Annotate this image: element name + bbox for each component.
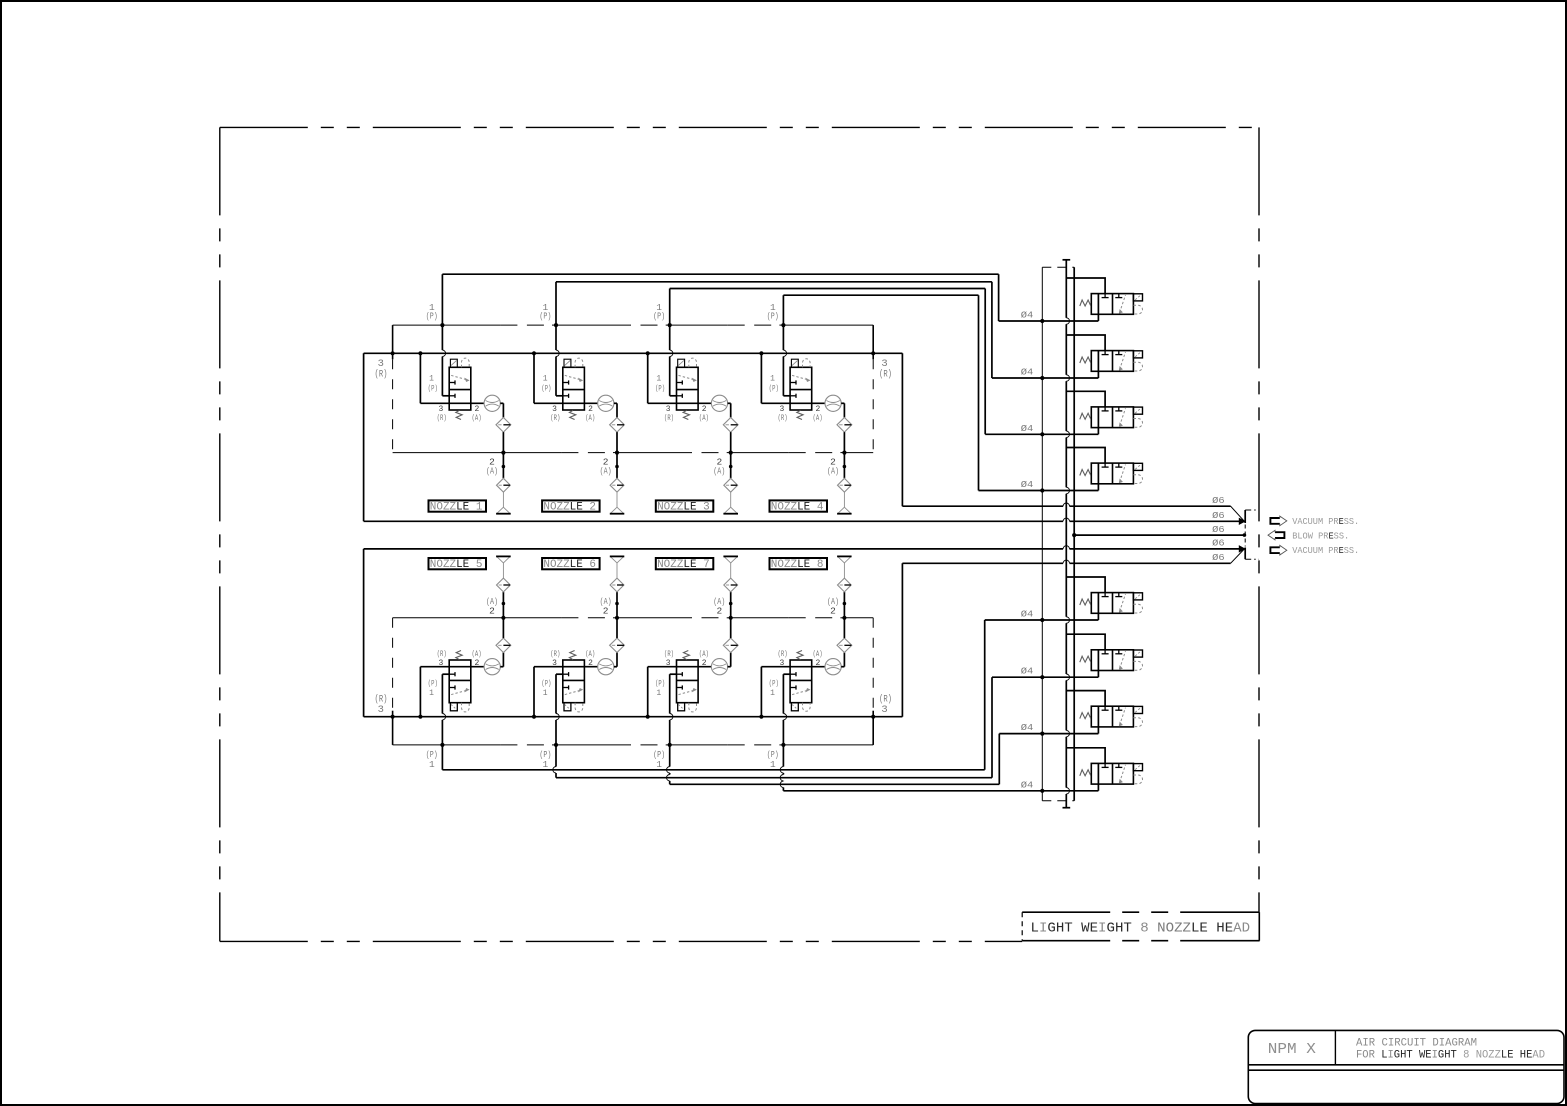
- nozzle unit 5: 3/2 pilot valve body: [449, 660, 471, 703]
- nozzle unit 2: valve port tick marks: [563, 382, 569, 384]
- nozzle unit 7: flow indicator ball: [711, 659, 727, 675]
- svg-text:3: 3: [438, 405, 443, 414]
- solenoid valve SV4: return spring: [1080, 470, 1091, 476]
- svg-text:(P): (P): [426, 311, 438, 322]
- nozzle unit 4: pilot supply riser wire 1(P): [782, 295, 784, 350]
- svg-text:1: 1: [656, 375, 661, 384]
- svg-text:(R): (R): [664, 650, 674, 659]
- solenoid valve SV4: flow diagonal: [1120, 465, 1126, 483]
- nozzle unit 5: wire meter to check valve: [500, 666, 503, 668]
- wire: pilot line nozzle 4 to solenoid valve SV4: [783, 294, 978, 296]
- svg-text:3: 3: [378, 704, 384, 716]
- nozzle unit 6: 3/2 pilot valve body: [563, 660, 585, 703]
- nozzle unit 4: wire R/A line through valve to flow meter: [761, 402, 825, 404]
- nozzle unit 8: spring return dome: [803, 703, 811, 712]
- svg-text:1: 1: [770, 375, 775, 384]
- svg-text:(A): (A): [813, 650, 823, 659]
- solenoid valve SV3: solenoid coil box: [1133, 407, 1142, 414]
- solenoid valve SV2: supply tap wire: [1066, 335, 1105, 351]
- nozzle unit 4: spring return dome: [803, 359, 811, 368]
- nozzle unit 4: return spring zigzag: [797, 410, 803, 419]
- nozzle unit 1: valve port tick marks: [449, 382, 455, 384]
- nozzle unit 5: wire diamond to A rail: [502, 618, 504, 638]
- nozzle unit 5: check valve / fitting diamond lower: [496, 638, 511, 652]
- svg-text:Ø4: Ø4: [1021, 368, 1034, 378]
- nozzle unit 3: wire R/A line through valve to flow meter: [648, 402, 712, 404]
- svg-text:(P): (P): [539, 311, 551, 322]
- nozzle unit 6: pilot actuator box: [564, 703, 571, 711]
- title block horizontal lines: [1248, 1064, 1564, 1066]
- solenoid valve SV5: port ticks: [1104, 593, 1106, 597]
- wire: pilot line nozzle 3 to solenoid valve SV3: [670, 288, 986, 290]
- nozzle unit 5: pilot actuator box: [450, 703, 457, 711]
- svg-text:(R): (R): [778, 414, 788, 423]
- svg-text:(R): (R): [437, 650, 447, 659]
- wire Ø6 line 1: top group R exhaust to vacuum port: [901, 505, 903, 507]
- manifold blow rail 2: [1073, 267, 1075, 800]
- nozzle unit 6: valve port tick marks: [563, 687, 569, 689]
- svg-text:NOZZLE 1: NOZZLE 1: [430, 502, 483, 514]
- solenoid valve SV3: outlet port wire: [1097, 407, 1099, 434]
- nozzle unit 3: wire A rail to lower fitting: [730, 453, 732, 479]
- svg-text:Ø6: Ø6: [1212, 496, 1225, 506]
- solenoid valve SV6: supply tap wire: [1066, 634, 1105, 650]
- svg-text:2: 2: [830, 606, 836, 617]
- nozzle unit 7: valve port tick marks: [677, 687, 683, 689]
- nozzle unit 4: flow indicator ball: [825, 395, 841, 411]
- solenoid valve SV3: supply tap wire: [1066, 391, 1105, 407]
- svg-text:2: 2: [489, 606, 495, 617]
- nozzle unit 4: pilot actuator box: [791, 359, 798, 367]
- solenoid valve SV5: solenoid coil box: [1133, 593, 1142, 600]
- nozzle unit 3: nozzle tip symbol: [730, 492, 732, 507]
- nozzle unit 3: wire diamond to A rail: [730, 432, 732, 453]
- nozzle unit 3: valve flow arrow (top cell): [679, 375, 696, 380]
- nozzle unit 3: spring return dome: [689, 358, 697, 367]
- nozzle unit 6: wire meter to check valve: [614, 666, 617, 668]
- solenoid valve SV4: supply tap wire: [1066, 448, 1105, 464]
- nozzle unit 6: exhaust drop wire from R rail: [532, 715, 536, 719]
- svg-text:3: 3: [552, 405, 557, 414]
- solenoid valve SV3: connector dome: [1133, 419, 1142, 428]
- wire Ø6 line 4: bottom group A header to vacuum port: [364, 548, 1064, 550]
- svg-text:2: 2: [588, 659, 593, 668]
- nozzle unit 3: outlet fitting diamond lower: [724, 478, 738, 492]
- solenoid valve SV7: flow diagonal: [1120, 708, 1126, 726]
- svg-text:(R): (R): [664, 414, 674, 423]
- solenoid valve SV3: return spring: [1080, 413, 1091, 419]
- nozzle unit 7: exhaust drop wire from R rail: [646, 715, 650, 719]
- nozzle unit 2: wire A rail to lower fitting: [616, 453, 618, 479]
- nozzle unit 3: return spring zigzag: [683, 410, 689, 419]
- solenoid valve SV7: outlet port wire: [1097, 706, 1099, 733]
- nozzle unit 5: wire P into valve port 1: [442, 673, 449, 675]
- nozzle unit 8: valve port tick marks: [790, 687, 796, 689]
- nozzle unit 6: wire R/A line through valve to flow meter: [534, 666, 598, 668]
- svg-text:NOZZLE 6: NOZZLE 6: [543, 559, 596, 571]
- svg-text:(R): (R): [778, 650, 788, 659]
- solenoid valve SV7: solenoid coil box: [1133, 706, 1142, 713]
- nozzle unit 8: pilot actuator box: [791, 703, 798, 711]
- bottom group enclosure (R exhaust rail box): [364, 716, 903, 718]
- svg-text:2: 2: [716, 606, 722, 617]
- solenoid valve SV6: port ticks: [1104, 650, 1106, 654]
- nozzle unit 8: flow indicator ball: [825, 659, 841, 675]
- solenoid valve SV1: flow diagonal: [1120, 295, 1126, 313]
- svg-text:2: 2: [474, 659, 479, 668]
- svg-text:(A): (A): [472, 650, 482, 659]
- svg-text:VACUUM PRESS.: VACUUM PRESS.: [1292, 517, 1359, 527]
- nozzle unit 4: 3/2 pilot valve body: [790, 367, 812, 410]
- title block divider vertical: [1334, 1030, 1336, 1064]
- nozzle unit 1: label box NOZZLE 1: [429, 500, 487, 511]
- nozzle unit 5: label box NOZZLE 5: [429, 558, 487, 569]
- nozzle unit 2: wire R/A line through valve to flow meter: [534, 402, 598, 404]
- bulkhead connector block at boundary: [1244, 510, 1246, 523]
- nozzle unit 6: valve flow arrow (bottom cell): [565, 690, 582, 695]
- nozzle unit 6: pilot supply riser wire 1(P): [555, 674, 557, 713]
- nozzle unit 1: check valve / fitting diamond upper: [496, 418, 511, 433]
- nozzle unit 1: valve flow arrow (top cell): [451, 375, 468, 380]
- svg-text:1: 1: [543, 759, 549, 770]
- nozzle unit 4: wire diamond to A rail: [843, 432, 845, 453]
- svg-text:Ø4: Ø4: [1021, 311, 1034, 321]
- nozzle unit 4: valve flow arrow (top cell): [792, 375, 809, 380]
- solenoid valve SV5: outlet port wire: [1097, 593, 1099, 620]
- nozzle unit 3: valve port tick marks: [677, 382, 683, 384]
- solenoid valve SV6: flow diagonal: [1120, 651, 1126, 669]
- nozzle unit 6: wire diamond to A rail: [616, 618, 618, 638]
- wire: bottom P rail corner riser at right: [872, 711, 874, 745]
- nozzle unit 8: check valve / fitting diamond lower: [837, 638, 852, 652]
- solenoid valve SV2: return spring: [1080, 357, 1091, 363]
- nozzle unit 3: 3/2 pilot valve body: [677, 367, 699, 410]
- nozzle unit 5: valve flow arrow (bottom cell): [451, 690, 468, 695]
- top group enclosure (R exhaust rail box): [364, 352, 903, 354]
- nozzle unit 5: exhaust drop wire from R rail: [418, 715, 422, 719]
- svg-text:(A): (A): [813, 414, 823, 423]
- nozzle unit 1: wire meter to check valve: [500, 402, 503, 404]
- svg-text:(P): (P): [767, 311, 779, 322]
- solenoid valve SV2: connector dome: [1133, 362, 1142, 371]
- solenoid valve SV1: body 3/2: [1091, 294, 1133, 315]
- svg-text:NOZZLE 3: NOZZLE 3: [657, 502, 710, 514]
- wire: P rail corner drop at left: [392, 325, 394, 359]
- solenoid valve SV6: connector dome: [1133, 661, 1142, 670]
- solenoid valve SV8: return spring: [1080, 770, 1091, 776]
- solenoid valve SV1: connector dome: [1133, 305, 1142, 314]
- nozzle unit 5: nozzle tip symbol: [502, 563, 504, 578]
- solenoid valve SV3: flow diagonal: [1120, 408, 1126, 426]
- nozzle unit 8: wire R/A line through valve to flow meter: [761, 666, 825, 668]
- svg-text:3: 3: [779, 405, 784, 414]
- nozzle unit 4: exhaust drop wire from R rail: [759, 351, 763, 355]
- arrowhead vacuum top: [1239, 518, 1245, 524]
- svg-text:NOZZLE 7: NOZZLE 7: [657, 559, 710, 571]
- block arrow: vacuum press (bottom): [1270, 547, 1279, 553]
- svg-text:NOZZLE 5: NOZZLE 5: [430, 559, 483, 571]
- svg-text:(P): (P): [541, 680, 551, 689]
- nozzle unit 1: nozzle tip symbol: [502, 492, 504, 507]
- nozzle unit 8: outlet fitting diamond upper: [838, 578, 852, 592]
- svg-text:LIGHT WEIGHT 8 NOZZLE HEAD: LIGHT WEIGHT 8 NOZZLE HEAD: [1031, 920, 1251, 936]
- nozzle unit 2: nozzle tip symbol: [616, 492, 618, 507]
- svg-text:2: 2: [474, 405, 479, 414]
- nozzle unit 8: pilot supply riser wire 1(P): [782, 674, 784, 713]
- nozzle unit 2: wire meter to check valve: [614, 402, 617, 404]
- solenoid valve SV8: flow diagonal: [1120, 765, 1126, 783]
- svg-text:(R): (R): [879, 369, 892, 381]
- svg-text:NPM X: NPM X: [1268, 1042, 1316, 1058]
- nozzle unit 5: wire A rail to upper fitting: [502, 592, 504, 618]
- nozzle unit 8: wire P into valve port 1: [783, 673, 790, 675]
- solenoid valve SV7: connector dome: [1133, 718, 1142, 727]
- solenoid valve SV3: port ticks: [1104, 407, 1106, 411]
- nozzle unit 2: return spring zigzag: [569, 410, 575, 419]
- svg-text:(P): (P): [769, 385, 779, 394]
- nozzle unit 7: wire P into valve port 1: [670, 673, 677, 675]
- wire: pilot line nozzle 6 to SV6: [555, 745, 557, 767]
- svg-text:(P): (P): [428, 385, 438, 394]
- solenoid valve SV1: return spring: [1080, 300, 1091, 306]
- nozzle unit 8: valve flow arrow (bottom cell): [792, 690, 809, 695]
- svg-text:3: 3: [552, 659, 557, 668]
- svg-text:(A): (A): [713, 466, 725, 477]
- svg-text:1: 1: [429, 375, 434, 384]
- svg-text:(A): (A): [699, 650, 709, 659]
- nozzle unit 2: check valve / fitting diamond upper: [610, 418, 625, 433]
- svg-text:(P): (P): [428, 680, 438, 689]
- svg-text:2: 2: [702, 659, 707, 668]
- solenoid valve SV4: outlet port wire: [1097, 463, 1099, 490]
- nozzle unit 6: spring return dome: [575, 703, 583, 712]
- wire: pilot line nozzle 5 to SV5: [441, 745, 443, 770]
- nozzle unit 3: pilot actuator box: [678, 359, 685, 367]
- nozzle unit 8: exhaust drop wire from R rail: [759, 715, 763, 719]
- solenoid valve SV2: body 3/2: [1091, 351, 1133, 372]
- svg-text:2: 2: [603, 606, 609, 617]
- svg-text:2: 2: [588, 405, 593, 414]
- solenoid valve SV2: flow diagonal: [1120, 352, 1126, 370]
- solenoid valve SV8: body 3/2: [1091, 763, 1133, 784]
- top group P pilot rail (dashed): [393, 324, 443, 326]
- wire Ø6 line 3: blow supply from manifold rail 2: [1074, 534, 1244, 536]
- nozzle unit 3: check valve / fitting diamond upper: [723, 418, 738, 433]
- nozzle unit 1: wire diamond to A rail: [502, 432, 504, 453]
- title block frame: [1248, 1030, 1564, 1103]
- svg-text:(P): (P): [655, 680, 665, 689]
- block arrow: blow press: [1275, 532, 1284, 538]
- nozzle unit 1: wire A rail to lower fitting: [502, 453, 504, 479]
- solenoid valve SV2: solenoid coil box: [1133, 351, 1142, 358]
- solenoid valve SV1: outlet port wire: [1097, 294, 1099, 321]
- solenoid valve SV1: supply tap wire: [1066, 278, 1105, 294]
- svg-text:2: 2: [702, 405, 707, 414]
- nozzle unit 8: 3/2 pilot valve body: [790, 660, 812, 703]
- nozzle unit 1: 3/2 pilot valve body: [449, 367, 471, 410]
- top inner dashed box verticals: [392, 359, 394, 452]
- nozzle unit 5: outlet fitting diamond upper: [497, 578, 511, 592]
- svg-text:3: 3: [666, 659, 671, 668]
- nozzle unit 7: valve flow arrow (bottom cell): [679, 690, 696, 695]
- nozzle unit 3: exhaust drop wire from R rail: [646, 351, 650, 355]
- solenoid valve SV5: body 3/2: [1091, 593, 1133, 614]
- solenoid valve SV8: outlet port wire: [1097, 763, 1099, 790]
- nozzle unit 8: wire meter to check valve: [841, 666, 844, 668]
- nozzle unit 2: pilot supply riser wire 1(P): [555, 282, 557, 350]
- svg-text:1: 1: [543, 689, 548, 698]
- svg-text:1: 1: [429, 759, 435, 770]
- nozzle unit 2: wire P into valve port 1: [556, 395, 563, 397]
- svg-text:(A): (A): [699, 414, 709, 423]
- nozzle unit 3: wire P into valve port 1: [670, 395, 677, 397]
- solenoid valve SV8: port ticks: [1104, 763, 1106, 767]
- svg-text:1: 1: [770, 759, 776, 770]
- svg-text:(R): (R): [550, 414, 560, 423]
- svg-text:(A): (A): [585, 650, 595, 659]
- nozzle unit 4: wire P into valve port 1: [783, 395, 790, 397]
- svg-text:Ø6: Ø6: [1212, 553, 1225, 563]
- solenoid valve SV7: body 3/2: [1091, 706, 1133, 727]
- svg-text:3: 3: [438, 659, 443, 668]
- nozzle unit 6: return spring zigzag: [569, 651, 575, 660]
- svg-text:(R): (R): [437, 414, 447, 423]
- svg-text:AIR CIRCUIT DIAGRAM: AIR CIRCUIT DIAGRAM: [1356, 1037, 1477, 1049]
- svg-text:3: 3: [881, 704, 887, 716]
- svg-text:FOR LIGHT WEIGHT 8 NOZZLE HEAD: FOR LIGHT WEIGHT 8 NOZZLE HEAD: [1356, 1050, 1545, 1062]
- svg-text:(R): (R): [375, 369, 388, 381]
- nozzle unit 6: flow indicator ball: [598, 659, 614, 675]
- wire Ø6 line 2: top group A header to vacuum port: [364, 520, 1064, 522]
- nozzle unit 7: label box NOZZLE 7: [656, 558, 714, 569]
- solenoid valve SV3: body 3/2: [1091, 407, 1133, 428]
- svg-text:Ø4: Ø4: [1021, 667, 1034, 677]
- nozzle unit 5: spring return dome: [462, 703, 470, 712]
- bottom group A rail (dashed): [393, 617, 504, 619]
- nozzle unit 5: wire R/A line through valve to flow meter: [420, 666, 484, 668]
- svg-text:3: 3: [779, 659, 784, 668]
- nozzle unit 1: pilot actuator box: [450, 359, 457, 367]
- nozzle unit 4: label box NOZZLE 4: [770, 500, 828, 511]
- nozzle unit 7: return spring zigzag: [683, 651, 689, 660]
- arrowhead vacuum bottom: [1239, 546, 1245, 552]
- solenoid valve SV7: port ticks: [1104, 706, 1106, 710]
- nozzle unit 3: flow indicator ball: [711, 395, 727, 411]
- solenoid valve SV5: supply tap wire: [1066, 577, 1105, 593]
- solenoid valve SV8: supply tap wire: [1066, 748, 1105, 764]
- solenoid valve SV4: port ticks: [1104, 463, 1106, 467]
- block arrow: vacuum press (top): [1270, 518, 1279, 524]
- nozzle unit 1: spring return dome: [462, 358, 470, 367]
- nozzle unit 3: pilot supply riser wire 1(P): [669, 289, 671, 351]
- nozzle unit 6: label box NOZZLE 6: [542, 558, 600, 569]
- wire: pilot line nozzle 8 to SV8: [782, 745, 784, 767]
- svg-text:(A): (A): [600, 466, 612, 477]
- nozzle unit 8: wire A rail to upper fitting: [843, 592, 845, 618]
- svg-text:(R): (R): [550, 650, 560, 659]
- svg-text:Ø6: Ø6: [1212, 525, 1225, 535]
- nozzle unit 7: spring return dome: [689, 703, 697, 712]
- solenoid valve SV7: return spring: [1080, 713, 1091, 719]
- svg-text:2: 2: [815, 405, 820, 414]
- svg-text:(A): (A): [472, 414, 482, 423]
- svg-text:(A): (A): [486, 466, 498, 477]
- nozzle unit 2: pilot actuator box: [564, 359, 571, 367]
- bottom group P pilot rail (dashed): [393, 744, 443, 746]
- nozzle unit 2: label box NOZZLE 2: [542, 500, 600, 511]
- nozzle unit 7: outlet fitting diamond upper: [724, 578, 738, 592]
- solenoid valve SV7: supply tap wire: [1066, 691, 1105, 707]
- nozzle unit 2: flow indicator ball: [598, 395, 614, 411]
- nozzle unit 4: wire meter to check valve: [841, 402, 844, 404]
- nozzle unit 5: pilot supply riser wire 1(P): [441, 674, 443, 713]
- nozzle unit 4: wire A rail to lower fitting: [843, 453, 845, 479]
- svg-text:1: 1: [656, 759, 662, 770]
- wire Ø6 line 5: bottom group R exhaust to vacuum port: [902, 562, 1063, 564]
- solenoid valve SV5: flow diagonal: [1120, 594, 1126, 612]
- nozzle unit 7: wire diamond to A rail: [730, 618, 732, 638]
- nozzle unit 8: wire diamond to A rail: [843, 618, 845, 638]
- svg-text:1: 1: [543, 375, 548, 384]
- manifold supply rail 1 with cap: [1063, 259, 1071, 261]
- nozzle unit 1: exhaust drop wire from R rail: [418, 351, 422, 355]
- svg-text:NOZZLE 4: NOZZLE 4: [771, 502, 824, 514]
- solenoid valve SV4: solenoid coil box: [1133, 463, 1142, 470]
- manifold boundary dashed left line: [1041, 267, 1043, 800]
- solenoid valve SV6: outlet port wire: [1097, 650, 1099, 677]
- nozzle unit 3: wire meter to check valve: [728, 402, 731, 404]
- svg-text:BLOW PRESS.: BLOW PRESS.: [1292, 531, 1349, 541]
- svg-text:NOZZLE 2: NOZZLE 2: [543, 502, 596, 514]
- boundary: dashed machine outline: [220, 126, 1259, 128]
- nozzle unit 8: return spring zigzag: [797, 651, 803, 660]
- nozzle unit 1: return spring zigzag: [456, 410, 462, 419]
- nozzle unit 7: pilot actuator box: [678, 703, 685, 711]
- solenoid valve SV8: solenoid coil box: [1133, 764, 1142, 771]
- svg-text:1: 1: [656, 689, 661, 698]
- nozzle unit 7: check valve / fitting diamond lower: [723, 638, 738, 652]
- nozzle unit 6: nozzle tip symbol: [616, 563, 618, 578]
- nozzle unit 7: wire A rail to upper fitting: [730, 592, 732, 618]
- wire: pilot line nozzle 1 to solenoid valve SV1: [442, 273, 998, 275]
- nozzle unit 3: label box NOZZLE 3: [656, 500, 714, 511]
- nozzle unit 7: nozzle tip symbol: [730, 563, 732, 578]
- nozzle unit 4: nozzle tip symbol: [843, 492, 845, 507]
- svg-text:NOZZLE 8: NOZZLE 8: [771, 559, 824, 571]
- top group A rail (dashed): [393, 452, 504, 454]
- nozzle unit 2: outlet fitting diamond lower: [610, 478, 624, 492]
- wire: bottom P rail corner riser at left: [392, 711, 394, 745]
- nozzle unit 5: flow indicator ball: [484, 659, 500, 675]
- nozzle unit 5: return spring zigzag: [456, 651, 462, 660]
- wire: pilot line nozzle 2 to solenoid valve SV2: [556, 281, 992, 283]
- nozzle unit 8: nozzle tip symbol: [843, 563, 845, 578]
- solenoid valve SV2: port ticks: [1104, 351, 1106, 355]
- nozzle unit 2: valve flow arrow (top cell): [565, 375, 582, 380]
- solenoid valve SV2: outlet port wire: [1097, 351, 1099, 378]
- solenoid valve SV6: body 3/2: [1091, 650, 1133, 671]
- svg-text:Ø4: Ø4: [1021, 480, 1034, 490]
- svg-text:1: 1: [429, 689, 434, 698]
- nozzle unit 7: wire R/A line through valve to flow meter: [648, 666, 712, 668]
- svg-text:Ø4: Ø4: [1021, 424, 1034, 434]
- svg-text:Ø4: Ø4: [1021, 780, 1034, 790]
- solenoid valve SV4: body 3/2: [1091, 463, 1133, 484]
- nozzle unit 4: check valve / fitting diamond upper: [837, 418, 852, 433]
- nozzle unit 7: pilot supply riser wire 1(P): [669, 674, 671, 713]
- nozzle unit 1: outlet fitting diamond lower: [497, 478, 511, 492]
- svg-text:Ø6: Ø6: [1212, 511, 1225, 521]
